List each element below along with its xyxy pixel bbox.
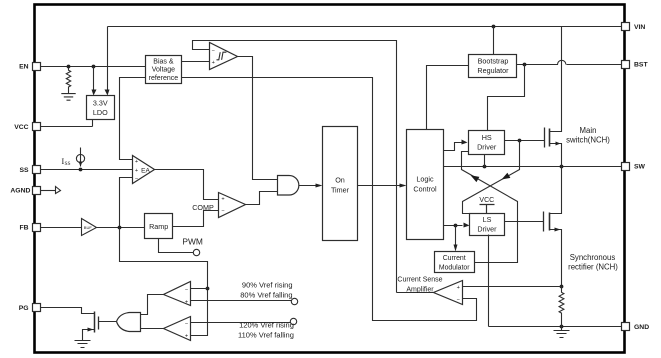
- wire PG pin to Q3 drain: [41, 308, 95, 314]
- block On Timer: [323, 127, 358, 241]
- wire bias reference to EA: [120, 78, 146, 160]
- svg-text:Modulator: Modulator: [439, 264, 470, 271]
- node PWM terminal: [193, 249, 199, 255]
- wire AND to On Timer: [299, 185, 317, 187]
- wire OR to PG FET gate: [99, 321, 117, 323]
- ground PG FET: [75, 341, 91, 348]
- node terminal 120pct: [290, 318, 296, 324]
- svg-text:BUF: BUF: [84, 225, 93, 230]
- wire FB to PG comparators: [120, 228, 208, 336]
- transistor Q2 sync rectifier channel bar: [549, 213, 551, 231]
- svg-text:COMP: COMP: [192, 203, 214, 212]
- pin SS: [33, 166, 41, 174]
- op-amp U-CSA current sense amplifier: [434, 281, 463, 305]
- wire to Current Modulator: [455, 226, 457, 245]
- wire cross-couple HS gate to LS Driver: [463, 141, 520, 214]
- regulator U-LDO 3.3V: [87, 96, 115, 120]
- wire VIN to LDO: [107, 27, 109, 90]
- wire BST with hop: [517, 60, 622, 64]
- svg-text:VIN: VIN: [634, 24, 645, 31]
- node EN-LDO junction: [92, 65, 96, 69]
- svg-text:FB: FB: [20, 225, 29, 232]
- pin GND: [622, 323, 630, 331]
- wire bias to hyst comparator: [182, 61, 210, 63]
- block Logic Control: [407, 130, 444, 240]
- wire Bootstrap Regulator to Logic Control: [427, 66, 469, 130]
- pin EN: [33, 63, 41, 71]
- wire Q1 source to SW: [550, 144, 562, 167]
- wire FB input: [41, 227, 82, 229]
- svg-text:AGND: AGND: [10, 187, 30, 194]
- wire LS Driver output to rectifier gate: [505, 221, 544, 223]
- wire Logic Control to HS Driver: [444, 143, 462, 151]
- pin PG: [33, 304, 41, 312]
- wire buffer to Ramp: [97, 227, 145, 229]
- pin AGND arrow: [41, 190, 56, 192]
- transistor Q1 main switch gate bar: [544, 128, 546, 148]
- wire VIN rail: [108, 26, 622, 28]
- wire LS Driver ground to GND: [489, 235, 622, 327]
- pin AGND: [33, 187, 41, 195]
- svg-text:Ramp: Ramp: [149, 222, 168, 231]
- wire VIN to Bootstrap Regulator: [493, 27, 495, 55]
- node HS gate junction: [518, 139, 522, 143]
- svg-text:+: +: [212, 60, 215, 66]
- resistor R-EN pulldown: [66, 67, 70, 94]
- wire PWM test point: [159, 239, 194, 253]
- svg-text:LS: LS: [483, 215, 492, 224]
- node FB-PGcomp junction: [206, 287, 210, 291]
- node terminal 90pct: [291, 298, 297, 304]
- wire Q2 source to sense node: [550, 230, 562, 287]
- wire BST to HS Driver supply: [488, 65, 525, 131]
- block Bootstrap Regulator: [469, 55, 517, 78]
- wire cross-couple Current Modulator to HS Driver: [462, 152, 518, 263]
- wire SW node: [444, 166, 622, 168]
- svg-text:+: +: [185, 334, 188, 340]
- buffer BUF on FB: [82, 219, 97, 236]
- wire Q1 drain to VIN: [550, 27, 562, 132]
- svg-text:Bias &: Bias &: [153, 58, 174, 65]
- block Current Modulator: [435, 252, 475, 273]
- block Bias and Voltage reference: [146, 56, 182, 84]
- gate AND: [278, 176, 299, 196]
- svg-text:3.3V: 3.3V: [93, 99, 108, 108]
- wire Logic Control to LS Driver: [444, 225, 463, 227]
- block LS Driver: [470, 214, 505, 236]
- wire Q2 drain to SW: [550, 167, 562, 214]
- node mainFET-SW junction: [560, 165, 564, 169]
- node HSdriver-SW junction: [483, 165, 487, 169]
- svg-text:Driver: Driver: [477, 142, 497, 151]
- svg-text:Current Sense: Current Sense: [397, 277, 442, 284]
- svg-text:−: −: [185, 321, 188, 327]
- pin BST: [622, 61, 630, 69]
- svg-text:90% Vref rising: 90% Vref rising: [242, 281, 293, 290]
- node VIN-bootstrap junction: [492, 25, 496, 29]
- wire PG2 output to OR: [141, 328, 164, 330]
- svg-text:Main: Main: [580, 126, 597, 135]
- svg-text:Amplifier: Amplifier: [406, 287, 434, 294]
- svg-text:Voltage: Voltage: [152, 67, 175, 74]
- transistor Q2 sync rectifier gate bar: [543, 212, 545, 232]
- wire Q3 source to ground: [83, 330, 95, 341]
- svg-text:Logic: Logic: [416, 174, 434, 183]
- transistor Q3 PG open-drain gate bar: [98, 317, 100, 330]
- svg-text:110% Vref falling: 110% Vref falling: [238, 330, 294, 339]
- comparator U-PG2 120pct: [164, 317, 191, 341]
- node current sense junction: [560, 285, 564, 289]
- supply VCC for LS Driver: [480, 205, 495, 214]
- node GND junction: [560, 325, 564, 329]
- comparator U-hyst current limit: [210, 43, 238, 70]
- transistor Q1 main switch channel bar: [549, 129, 551, 147]
- block Ramp generator: [145, 214, 173, 239]
- wire FB to PG1: [191, 288, 208, 290]
- wire sense node to CSA: [463, 286, 562, 288]
- wire EN to LDO: [93, 67, 95, 90]
- svg-text:LDO: LDO: [93, 108, 108, 117]
- resistor R-sense: [559, 287, 564, 327]
- svg-text:Synchronous: Synchronous: [570, 253, 616, 262]
- node SS junction: [79, 168, 83, 172]
- svg-text:−: −: [135, 176, 138, 182]
- svg-text:PG: PG: [19, 305, 29, 312]
- svg-text:−: −: [221, 209, 224, 215]
- pin VCC: [33, 123, 41, 131]
- svg-text:Control: Control: [413, 184, 437, 193]
- wire EA inverting input to FB node: [120, 178, 133, 228]
- svg-text:+: +: [185, 299, 188, 305]
- svg-text:rectifier (NCH): rectifier (NCH): [568, 262, 618, 271]
- wire bias reference to CSA: [182, 78, 477, 321]
- pin SW: [622, 163, 630, 171]
- svg-text:HS: HS: [482, 133, 492, 142]
- svg-text:+: +: [135, 159, 138, 165]
- wire HS Driver output to main switch gate: [505, 140, 545, 142]
- wire PG2 threshold input: [191, 322, 291, 324]
- svg-text:+: +: [457, 285, 460, 291]
- ground at GND pin: [554, 327, 570, 338]
- svg-text:switch(NCH): switch(NCH): [566, 136, 610, 145]
- svg-text:SS: SS: [65, 161, 71, 167]
- svg-text:VCC: VCC: [479, 197, 494, 204]
- op-amp EA error amplifier: [133, 156, 155, 184]
- svg-text:80% Vref falling: 80% Vref falling: [240, 290, 292, 299]
- ground EN-pulldown: [61, 94, 75, 101]
- pin FB: [33, 224, 41, 232]
- svg-text:Current: Current: [443, 255, 466, 262]
- node BST junction: [523, 63, 527, 67]
- svg-text:EN: EN: [19, 64, 29, 71]
- svg-text:Bootstrap: Bootstrap: [478, 56, 509, 65]
- comparator COMP: [219, 193, 246, 218]
- node FB junction: [118, 226, 122, 230]
- svg-text:VCC: VCC: [14, 124, 28, 131]
- wire HS Driver to SW: [484, 155, 486, 167]
- wire EA output to COMP: [155, 170, 219, 200]
- wire Ramp to COMP: [173, 211, 219, 227]
- wire On Timer to Logic Control: [358, 185, 400, 187]
- svg-text:Timer: Timer: [331, 185, 350, 194]
- wire EN: [41, 66, 146, 68]
- gate OR power good: [117, 313, 141, 332]
- svg-text:PWM: PWM: [182, 236, 202, 246]
- svg-text:+: +: [221, 197, 224, 203]
- svg-text:On: On: [335, 175, 345, 184]
- wire SS: [41, 169, 133, 171]
- wire hyst comparator output to AND: [238, 57, 278, 180]
- hysteresis symbol: [217, 52, 227, 60]
- wire hyst comparator feedback from CSA: [193, 41, 397, 293]
- svg-text:−: −: [457, 297, 460, 303]
- svg-text:SW: SW: [634, 164, 646, 171]
- svg-text:reference: reference: [149, 75, 179, 82]
- wire PG1 threshold input: [191, 300, 292, 302]
- node EN-resistor junction: [67, 65, 71, 69]
- svg-text:Regulator: Regulator: [477, 66, 509, 75]
- wire COMP output to AND: [246, 192, 278, 205]
- svg-text:SS: SS: [20, 167, 30, 174]
- svg-text:EA: EA: [141, 167, 150, 174]
- svg-text:+: +: [135, 168, 138, 174]
- comparator U-PG1 90pct: [164, 282, 191, 306]
- wire PG1 output to OR: [141, 295, 164, 315]
- svg-text:GND: GND: [634, 324, 649, 331]
- svg-text:BST: BST: [634, 62, 648, 69]
- node logic-LS junction: [454, 224, 458, 228]
- svg-text:120% Vref rising: 120% Vref rising: [239, 321, 294, 330]
- block HS Driver: [469, 131, 505, 155]
- transistor Q3 channel bar: [94, 312, 96, 333]
- wire LDO to VCC pin: [41, 120, 93, 127]
- svg-text:−: −: [185, 287, 188, 293]
- svg-text:−: −: [212, 48, 215, 54]
- wire CSA output: [397, 292, 434, 294]
- svg-text:Driver: Driver: [477, 225, 497, 234]
- current source Iss: [76, 154, 84, 162]
- pin VIN: [622, 23, 630, 31]
